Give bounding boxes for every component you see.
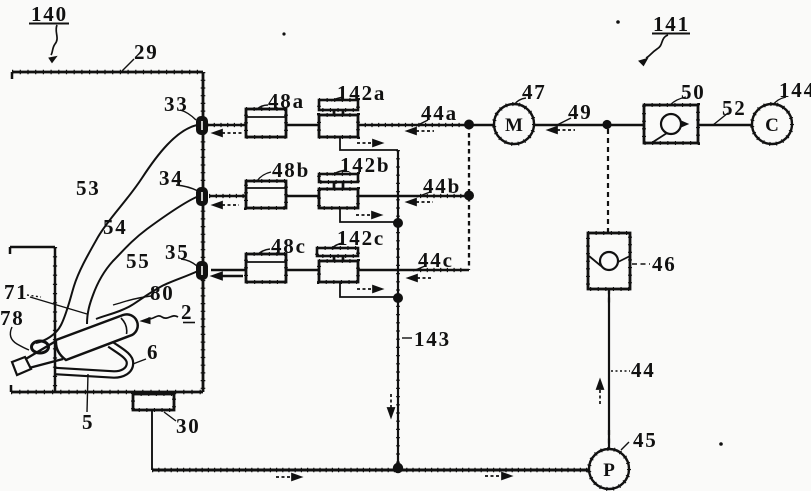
arrow under 141 — [646, 35, 668, 58]
svg-text:52: 52 — [722, 96, 747, 120]
arrow down on 143 — [390, 394, 392, 408]
svg-text:44a: 44a — [421, 101, 458, 125]
wire 44 — [608, 289, 610, 449]
svg-text:140: 140 — [31, 2, 68, 26]
solenoid valve 142c — [317, 248, 358, 256]
solenoid valve 142b — [319, 174, 358, 182]
svg-text:71: 71 — [4, 280, 29, 304]
squiggle arrows — [49, 25, 668, 324]
pump P 45 — [589, 449, 629, 489]
valve box 48b — [246, 181, 286, 208]
arrow right bottom wire 2 — [485, 475, 502, 477]
leader 5 — [87, 374, 88, 412]
leader 71 — [27, 295, 41, 297]
leader 30 — [164, 412, 176, 421]
connector C 144 — [752, 104, 792, 144]
svg-text:55: 55 — [126, 249, 151, 273]
svg-text:5: 5 — [82, 410, 94, 434]
svg-text:C: C — [765, 115, 779, 136]
drain wire from 142c — [340, 282, 398, 297]
svg-text:48b: 48b — [272, 158, 310, 182]
svg-text:144: 144 — [779, 78, 811, 102]
valve box 48c — [246, 254, 286, 282]
leader 47 — [514, 98, 526, 105]
svg-text:141: 141 — [653, 12, 690, 36]
dashed bus 44a-44c vertical — [468, 125, 470, 270]
svg-text:78: 78 — [0, 306, 25, 330]
corner tick bottom-left — [10, 385, 13, 392]
check valve 50 box — [644, 105, 698, 143]
arrow left row b mid — [416, 201, 433, 203]
dashed wire M-junction to valve 46 — [607, 129, 609, 233]
wire row c — [211, 269, 469, 272]
leader 80 — [113, 296, 151, 305]
svg-text:53: 53 — [76, 176, 101, 200]
leader 142b — [332, 170, 346, 175]
leader 142c — [331, 243, 343, 249]
suction box 30 — [133, 394, 174, 410]
leader 34 — [176, 185, 198, 191]
handpiece body 2 — [56, 314, 138, 360]
svg-text:49: 49 — [568, 100, 593, 124]
svg-text:6: 6 — [147, 340, 159, 364]
enclosure left shelf vertical — [54, 247, 57, 392]
enclosure 29 right edge — [202, 72, 205, 392]
svg-text:48c: 48c — [271, 234, 307, 258]
texture overlays — [133, 100, 792, 489]
leader 29 — [122, 59, 134, 71]
arrow left row c mid — [417, 277, 431, 279]
svg-text:2: 2 — [181, 300, 193, 324]
arrow left row b near 34 — [222, 204, 239, 206]
svg-text:50: 50 — [681, 80, 706, 104]
leader 46 — [632, 263, 650, 265]
svg-text:44c: 44c — [418, 248, 454, 272]
leader 48c — [257, 249, 270, 255]
arrow left row a mid — [416, 130, 434, 132]
svg-text:142c: 142c — [337, 226, 385, 250]
valve box 48a — [246, 109, 286, 137]
leader 78 — [10, 327, 29, 350]
leader 49 — [557, 118, 571, 125]
arrow at 2 — [148, 316, 178, 319]
arrow under 140 — [51, 25, 57, 55]
drain wire from 142b — [340, 208, 398, 222]
curve 53 — [36, 125, 197, 343]
solenoid valve 142a — [319, 100, 358, 110]
svg-text:44: 44 — [631, 358, 656, 382]
wire from 30 down — [151, 410, 153, 470]
arrow up on 44 — [599, 390, 601, 404]
junction dots — [464, 120, 474, 130]
leader 142a — [331, 97, 344, 101]
svg-text:80: 80 — [150, 281, 175, 305]
leader 48a — [256, 105, 268, 110]
leader 44a — [416, 120, 428, 126]
curve 55 — [96, 271, 198, 319]
connector 35 — [197, 262, 207, 279]
enclosure 29 bottom edge — [11, 391, 203, 394]
connector 34 — [197, 188, 207, 205]
arrow left row c near 35 — [222, 275, 243, 277]
connector 33 — [197, 117, 207, 134]
check valve 46 — [588, 233, 630, 289]
enclosure left shelf top — [10, 247, 55, 254]
svg-text:54: 54 — [103, 215, 128, 239]
drain bus 143 vertical — [397, 150, 399, 470]
svg-text:46: 46 — [652, 252, 677, 276]
svg-text:45: 45 — [633, 428, 658, 452]
svg-text:142b: 142b — [340, 153, 390, 177]
bump on nozzle — [32, 341, 49, 353]
svg-text:30: 30 — [176, 414, 201, 438]
leader 50 — [670, 97, 686, 105]
arrow right drain c — [357, 288, 373, 290]
svg-text:143: 143 — [414, 327, 451, 351]
leader 44 — [611, 370, 630, 372]
svg-text:35: 35 — [165, 240, 190, 264]
nozzle tip 78 — [12, 357, 31, 375]
leader 35 — [181, 259, 197, 266]
leader 33 — [180, 110, 196, 120]
leader 6 — [133, 359, 146, 364]
arrow left row a near M — [557, 129, 575, 131]
bottom return wire — [152, 469, 589, 472]
svg-text:48a: 48a — [268, 89, 305, 113]
svg-text:142a: 142a — [337, 81, 386, 105]
motor M 47 — [494, 104, 534, 144]
arrow right drain b — [356, 214, 372, 216]
tube 6 outline — [55, 344, 130, 375]
leader 48b — [257, 172, 271, 181]
svg-text:44b: 44b — [423, 174, 461, 198]
drain wire from 142a — [340, 137, 398, 150]
arrow right drain a — [357, 142, 373, 144]
arrow right bottom wire 1 — [276, 476, 292, 478]
stray dots — [282, 32, 285, 35]
leaders — [10, 59, 786, 450]
wire row a — [207, 124, 752, 127]
svg-text:33: 33 — [164, 92, 189, 116]
arrow left row a near 33 — [222, 132, 243, 134]
curve 54 — [87, 196, 199, 324]
svg-text:P: P — [603, 460, 615, 481]
leader 45 — [621, 442, 629, 450]
svg-text:M: M — [505, 115, 523, 136]
leader 143 — [402, 337, 412, 339]
flow arrows — [212, 127, 603, 480]
leader 44b — [417, 192, 430, 197]
wire row b — [209, 195, 469, 198]
leader 44c — [413, 266, 425, 271]
svg-text:29: 29 — [134, 40, 159, 64]
svg-text:34: 34 — [159, 166, 184, 190]
enclosure 29 top edge — [12, 71, 203, 74]
leader 52 — [713, 113, 728, 125]
svg-text:47: 47 — [522, 80, 547, 104]
nozzle — [24, 341, 63, 368]
leader 144 — [773, 97, 786, 105]
